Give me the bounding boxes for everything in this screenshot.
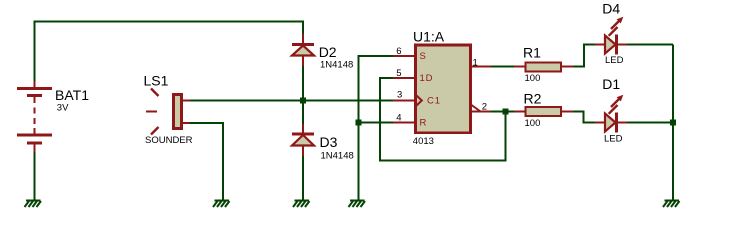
svg-text:C1: C1 <box>427 96 441 107</box>
battery BAT1 <box>17 81 89 153</box>
pin 4 R stub <box>393 113 427 129</box>
node junction D2/D3/bus <box>300 98 306 104</box>
svg-text:100: 100 <box>525 73 541 84</box>
node junction D1 right rail <box>670 120 676 126</box>
wire right rail to ground <box>672 45 674 201</box>
wire sounder bottom to ground <box>190 123 223 200</box>
svg-text:100: 100 <box>525 118 541 129</box>
svg-text:U1:A: U1:A <box>413 28 445 44</box>
wire bus sounder to C1 <box>190 100 393 102</box>
svg-text:1D: 1D <box>420 73 434 84</box>
diode D2 1N4148 <box>292 34 353 71</box>
wire D4 to right rail <box>627 44 673 46</box>
LED D1 <box>595 76 628 144</box>
svg-text:D1: D1 <box>602 76 620 92</box>
svg-text:4013: 4013 <box>413 136 434 147</box>
speaker LS1 <box>144 72 193 146</box>
svg-text:4: 4 <box>396 113 401 124</box>
svg-text:2: 2 <box>482 102 487 113</box>
svg-text:1N4148: 1N4148 <box>320 60 353 71</box>
svg-text:D4: D4 <box>602 0 620 16</box>
node junction S/R rail <box>356 120 362 126</box>
svg-text:3V: 3V <box>57 102 69 113</box>
pin 6 S stub <box>393 46 427 62</box>
wire D1 to right rail <box>627 122 673 124</box>
wire battery to ground <box>34 152 36 200</box>
LED D4 <box>595 0 628 66</box>
svg-text:BAT1: BAT1 <box>55 87 89 103</box>
ground sounder <box>213 201 230 208</box>
op IC U1:A 4013 body <box>413 28 471 147</box>
wire R branch <box>359 122 394 124</box>
pin 3 C1 clock stub <box>393 90 441 107</box>
svg-text:R: R <box>420 118 428 129</box>
wire R1 to D4 step up <box>573 45 596 67</box>
wire bus to D3 <box>302 100 304 125</box>
svg-text:D3: D3 <box>320 134 338 150</box>
diode D3 1N4148 <box>292 124 354 161</box>
wire pin2 to R2 <box>491 111 515 113</box>
svg-text:S: S <box>420 51 427 62</box>
svg-text:D2: D2 <box>319 44 337 60</box>
wire D2 to bus <box>302 66 304 100</box>
wire R2 to D1 step down <box>573 112 596 123</box>
svg-text:1N4148: 1N4148 <box>321 150 354 161</box>
wire pin1 to R1 <box>491 66 515 68</box>
pin 5 1D stub <box>393 68 433 84</box>
wire top rail battery to D2 <box>35 22 304 89</box>
wire D3 to ground <box>302 156 304 200</box>
ground battery <box>25 201 42 208</box>
resistor R1 <box>514 44 574 84</box>
svg-text:LS1: LS1 <box>144 72 169 88</box>
ground D3 <box>293 201 310 208</box>
wire feedback Qbar to 1D <box>380 78 506 161</box>
svg-text:1: 1 <box>473 58 478 69</box>
svg-text:R2: R2 <box>524 90 542 106</box>
svg-text:SOUNDER: SOUNDER <box>145 135 193 146</box>
resistor R2 <box>514 90 574 129</box>
svg-text:6: 6 <box>396 46 401 57</box>
ground S/R rail <box>349 201 366 208</box>
svg-text:R1: R1 <box>523 44 541 60</box>
pin 1 Q stub <box>471 58 492 69</box>
svg-text:LED: LED <box>604 133 623 144</box>
wire S to ground rail <box>359 56 394 200</box>
ground right rail <box>663 201 680 208</box>
svg-text:LED: LED <box>605 55 624 66</box>
node junction pin2 feedback <box>503 109 509 115</box>
pin 2 Qbar stub with inversion wedge <box>471 102 492 113</box>
svg-text:5: 5 <box>396 68 401 79</box>
svg-text:3: 3 <box>397 90 402 101</box>
